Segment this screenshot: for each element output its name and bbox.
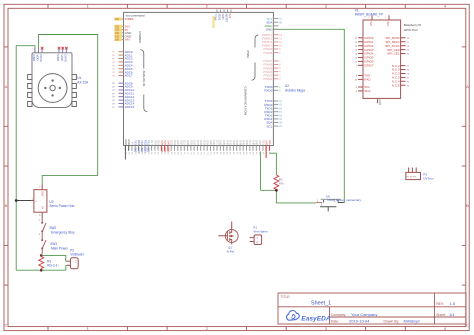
transistor Q1 N-Fet symbol [218,222,238,245]
arduino mega U2 analog pins ADC8-ADC15 [112,81,134,109]
svg-text:106: 106 [115,39,120,42]
arduino mega U2 right top pins SCL SDA AREF GND [264,17,282,32]
resistor R1 zigzag [39,257,44,269]
svg-text:GND: GND [221,14,225,20]
svg-text:Drawn By:: Drawn By: [384,320,400,324]
svg-text:VDD: VDD [60,54,64,61]
raspberry pi header X1 bottom GND pin [378,98,382,105]
switch SW2 emergency stop [41,218,43,238]
wire mega bottom pin down left of R2 [260,152,262,191]
raspberry pi header X1 body [363,20,401,98]
svg-text:GND: GND [378,99,382,105]
vent valve P1 pins [250,237,255,239]
svg-text:B: B [5,203,8,208]
raspberry pi header X1 NC pins [392,64,410,88]
raspberry pi header X1 GPIO pins [355,36,374,68]
svg-text:PWM8: PWM8 [263,51,272,55]
svg-text:ADC7: ADC7 [125,74,133,78]
svg-text:3V3: 3V3 [386,21,390,26]
svg-text:OUT: OUT [41,191,45,197]
svg-text:5V0: 5V0 [228,14,232,19]
svg-text:RASPI_BOARD_FP: RASPI_BOARD_FP [355,13,384,17]
svg-text:VDD: VDD [36,54,40,61]
servo U1 no-connect marks [41,47,68,50]
wire servo GND to left rail [16,46,35,271]
svg-text:+: + [35,199,37,203]
arduino mega U2 analog pins ADC0-ADC7 [112,50,133,78]
servo U1 horn center hole [50,85,55,90]
svg-text:TX1: TX1 [147,148,151,153]
push button U6 contacts and actuator [324,200,339,203]
uvtron P3 body [406,172,421,179]
servo U1 pin name labels [32,54,68,62]
arduino mega U2 bottom pins [124,139,272,155]
svg-text:Raspberry Pi: Raspberry Pi [404,23,422,27]
svg-text:SDA1: SDA1 [218,14,222,21]
svg-text:ADC15: ADC15 [125,105,135,109]
svg-text:P1 P2 P3: P1 P2 P3 [407,177,417,179]
svg-text:DATA: DATA [39,54,43,62]
arduino mega U2 PWM pins group 2 [263,59,281,81]
raspberry pi header X1 SCL SDA pins [356,85,371,93]
svg-text:POWER: POWER [138,32,142,44]
svg-text:ANALOG IN: ANALOG IN [142,71,146,87]
svg-text:SW2: SW2 [49,226,56,230]
svg-text:1/1: 1/1 [449,312,455,317]
servo U1 AX-12A body [32,53,72,108]
svg-text:REV:: REV: [436,302,444,306]
svg-text:Sheet_1: Sheet_1 [311,300,331,306]
resistor R1 leads [40,254,42,271]
svg-text:1.0: 1.0 [450,301,456,306]
svg-text:GND: GND [32,54,36,62]
svg-text:RXD: RXD [364,78,371,82]
svg-text:SW1: SW1 [50,242,57,246]
svg-text:RG-2-1: RG-2-1 [47,264,58,268]
title block dividers [278,293,466,324]
wire bottom rail to voltmeter [16,265,67,270]
raspberry pi header X1 top pins 5V0 3V3 [368,15,390,26]
svg-text:GPIO7: GPIO7 [364,64,374,68]
svg-text:Servo Power Hub: Servo Power Hub [49,204,74,208]
svg-text:SCL: SCL [268,140,272,146]
servo U1 horn circle [38,74,67,103]
arduino mega U2 power pins with net flags [114,25,132,42]
svg-text:UVTron: UVTron [423,177,434,181]
svg-text:5V0: 5V0 [369,21,373,26]
svg-text:Main Power: Main Power [51,247,69,251]
svg-text:COMMUNICATION: COMMUNICATION [244,87,248,116]
arduino mega U2 bottom red net labels [160,148,171,153]
arduino mega U2 IOREF pin [119,18,124,20]
servo power hub U3 pin 2 top [41,185,43,190]
arduino mega U2 bottom GND stub wire [124,146,126,160]
svg-text:IN: IN [41,207,45,210]
svg-text:GPIO Port: GPIO Port [404,28,418,32]
svg-text:GND: GND [266,28,274,32]
junction dot at rail and hub pin1 [15,199,18,202]
svg-text:TITLE:: TITLE: [281,295,291,299]
svg-text:N-Fet: N-Fet [227,250,235,254]
wire R2 junction to push button pin1 [261,190,317,203]
svg-text:A: A [5,84,8,89]
wire servo power hub pin1 to rail [16,200,31,202]
push button U6 pin 1 [316,202,322,204]
junction dot R1 top [40,254,43,257]
svg-text:Company:: Company: [331,313,347,317]
svg-text:RXD0: RXD0 [264,89,272,93]
svg-text:RESET: RESET [225,14,229,23]
svg-text:EasyEDA: EasyEDA [301,315,331,322]
svg-text:Vent Valve: Vent Valve [253,229,267,233]
arduino mega U2 top yellow net flag [212,16,214,28]
svg-text:B: B [466,203,469,208]
servo U1 right mounting tabs [72,75,76,107]
svg-text:Push_button_momentary: Push_button_momentary [328,198,362,202]
arduino mega U2 PWM pins group 1 [262,33,283,55]
arduino mega U2 top pins [214,9,232,22]
svg-text:SCL: SCL [267,124,273,128]
svg-text:Sheet:: Sheet: [436,313,446,317]
servo U1 left mounting tabs [28,75,32,107]
title block outline [278,293,466,324]
uvtron P3 pins [409,168,417,173]
svg-text:AX-12A: AX-12A [77,80,89,84]
servo power hub U3 pin 1 left [31,200,34,202]
svg-text:SPI_CE1: SPI_CE1 [387,52,400,56]
wire R1 top branch to voltmeter pin 1 [41,255,67,261]
svg-text:SDA: SDA [364,89,370,93]
servo power hub U3 pin 3 bottom [41,212,43,218]
svg-text:Arduino Mega: Arduino Mega [285,88,305,92]
servo power hub U3 body [34,190,47,213]
junction dot below R2 [275,189,278,192]
vent valve P1 body [254,235,262,245]
resistor R2 zigzag [274,175,279,189]
svg-text:DATA: DATA [64,54,68,62]
svg-text:2019-10-04: 2019-10-04 [349,319,370,324]
junction dot R1 bottom rail [40,269,43,272]
arduino mega U2 serial pins TXD0 RXD0 [264,85,281,93]
servo U1 horn screw holes [44,79,61,96]
push button U6 pin 2 [338,202,344,204]
svg-text:Your Company: Your Company [351,312,377,317]
svg-text:VIN: VIN [125,38,130,42]
wire mega bottom pin to resistor R2 [269,153,276,175]
svg-text:5V0: 5V0 [166,148,170,153]
easyeda logo [287,311,331,323]
svg-text:GND: GND [56,54,60,62]
voltmeter P2 pins [67,260,70,262]
svg-text:IOREF: IOREF [125,17,134,21]
svg-text:Emergency Stop: Emergency Stop [51,231,75,235]
voltmeter P2 body [70,258,78,269]
svg-text:PWM2: PWM2 [263,77,272,81]
svg-text:Date:: Date: [331,320,339,324]
wire mega GND right to push button [273,29,344,202]
servo U1 top pins [35,48,67,53]
wire servo VDD to servo power hub OUT [39,35,98,185]
raspberry pi header X1 SPI pins [385,36,410,56]
svg-text:47k: 47k [279,182,284,186]
switch SW1 main power [41,238,43,253]
svg-text:KirkBoyd: KirkBoyd [404,319,420,324]
svg-text:A: A [466,84,469,89]
svg-text:C: C [466,322,469,327]
svg-text:C: C [5,322,8,327]
svg-text:101: 101 [115,18,120,21]
arduino mega U2 body [124,12,274,145]
ground symbol below push button [320,206,336,208]
raspberry pi header X1 TXD RXD pins [355,74,372,82]
svg-text:Voltmeter: Voltmeter [70,252,84,256]
svg-text:PWM: PWM [246,51,250,59]
arduino mega U2 communication pins [264,99,282,128]
arduino mega U2 bottom blue net labels [134,148,151,154]
arduino mega U2 bottom red stub wire [265,146,267,159]
svg-text:N.C.5: N.C.5 [392,84,400,88]
